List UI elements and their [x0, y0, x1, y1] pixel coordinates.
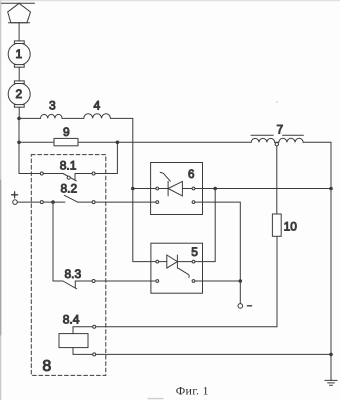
relay 8.4 bottom lead: [73, 348, 331, 355]
thyristor VS5 triangle: [167, 255, 178, 268]
switch 8.2 right terminal circle: [92, 201, 95, 204]
node C junction dot: [116, 141, 120, 145]
wire machine2 down to node A: [18, 107, 20, 118]
thyristor VS6 cathode bar: [167, 181, 169, 196]
wire node B through resistor 9 line to inductor 7: [19, 141, 251, 143]
wire machine1 to machine2: [18, 67, 20, 81]
wire node A to inductor 3: [19, 117, 41, 119]
thyristor VS6 base wire: [182, 188, 192, 190]
switch 8.1 right wire: [75, 173, 95, 175]
resistor 9: [54, 138, 78, 145]
wire node F down to block 5 upper right: [195, 189, 215, 262]
node B junction dot: [17, 141, 21, 145]
minus terminal: [238, 304, 243, 309]
node D junction dot: [51, 200, 55, 204]
svg-text:8.3: 8.3: [64, 267, 81, 281]
vertical wire node A down to switch 8.1: [18, 118, 20, 173]
thyristor VS5 anode wire: [159, 261, 167, 263]
wire node E to block 6 left terminal: [133, 188, 156, 190]
node H junction dot: [239, 279, 243, 283]
switch 8.3 right terminal circle: [92, 280, 95, 283]
wire block 6 lower right to minus bus: [195, 202, 240, 281]
node G junction dot at right bus: [329, 187, 333, 191]
thyristor VS6 triangle: [168, 181, 182, 196]
machine 2: [8, 81, 30, 107]
relay 8.4 top lead: [73, 327, 277, 334]
ground: [325, 380, 337, 385]
switch 8.1 blade circle: [67, 176, 70, 179]
svg-text:7: 7: [276, 122, 283, 136]
svg-text:4: 4: [94, 99, 101, 113]
switch 8.1 contact bar: [74, 174, 76, 181]
node F junction dot: [213, 187, 217, 191]
antenna W1: [2, 3, 35, 23]
right bus vertical wire: [330, 142, 332, 380]
svg-text:5: 5: [191, 245, 198, 259]
relay 8.4 bottom terminal circle: [93, 353, 96, 356]
resistor 10: [272, 214, 281, 236]
block 6 box: [151, 163, 203, 215]
thyristor VS5 base wire: [177, 261, 192, 263]
node I junction dot at bottom right bus: [329, 353, 333, 357]
switch 8.2 right wire to block 6: [78, 201, 156, 203]
svg-text:10: 10: [284, 220, 298, 234]
wire plus terminal to switch 8.2: [17, 201, 65, 203]
dashed box 8: [31, 155, 106, 376]
scan smudge bottom left: [148, 398, 163, 400]
relay 8.4 top terminal circle: [93, 325, 96, 328]
switch 8.1 left wire: [19, 173, 63, 175]
wire node D down to switch 8.3: [52, 202, 54, 281]
svg-text:2: 2: [16, 87, 23, 101]
svg-text:8.2: 8.2: [60, 181, 77, 195]
inductor 7 center tap circle: [275, 143, 278, 146]
switch 8.3 left wire: [53, 280, 63, 282]
block 5 box: [151, 243, 203, 293]
switch 8.2 blade: [64, 195, 77, 202]
thyristor VS5 gate: [178, 268, 189, 277]
node A junction dot: [17, 117, 21, 121]
wire node E down to block 5 upper left: [133, 189, 156, 262]
inductor 4: [84, 114, 111, 119]
machine 1: [8, 41, 30, 67]
inductor 3: [41, 114, 63, 118]
inductor 7: [251, 138, 274, 142]
block 6 terminal circles: [156, 187, 159, 190]
scan speck: [276, 101, 278, 103]
thyristor VS6 anode wire: [159, 188, 168, 190]
wire inductor4 to corner, down to node at block 6: [110, 118, 132, 188]
node E junction dot at block6 left: [131, 187, 135, 191]
wire antenna to machine 1: [18, 23, 20, 41]
wire node H down to minus terminal: [239, 281, 241, 304]
scan border left edge: [0, 0, 2, 400]
switch 8.3 right wire to block 5: [75, 280, 156, 282]
svg-text:8.4: 8.4: [63, 313, 80, 327]
switch 8.2 left terminal circle: [40, 201, 43, 204]
wire block 6 right terminal to right bus: [195, 188, 331, 190]
switch 8.1 left terminal circle: [40, 172, 43, 175]
block 5 terminal circles: [156, 260, 159, 263]
svg-text:8.1: 8.1: [60, 159, 77, 173]
switch 8.3 contact bar: [74, 281, 76, 288]
switch 8.1 blade: [63, 174, 76, 181]
svg-text:6: 6: [188, 169, 194, 181]
switch 8.3 blade: [63, 281, 77, 289]
relay coil 8.4: [59, 334, 88, 348]
thyristor VS5 cathode bar: [176, 255, 178, 268]
inductor 7 core bars: [251, 134, 303, 136]
svg-text:Фиг. 1: Фиг. 1: [176, 384, 209, 398]
svg-text:8: 8: [42, 358, 51, 375]
wire node C down to switch 8.1 right side: [95, 142, 118, 173]
plus terminal: [12, 192, 18, 198]
wire resistor10 bottom corner up: [276, 236, 278, 326]
wire inductor3 to inductor4: [62, 117, 84, 119]
scan border top edge: [0, 0, 340, 2]
thyristor VS6 gate: [160, 172, 170, 181]
svg-text:1: 1: [16, 47, 23, 61]
svg-text:9: 9: [63, 125, 70, 139]
switch 8.1 right terminal circle: [92, 172, 95, 175]
wire block 5 lower right to minus node: [195, 280, 240, 282]
svg-text:3: 3: [49, 99, 56, 113]
wire center tap down to resistor 10: [276, 146, 278, 214]
